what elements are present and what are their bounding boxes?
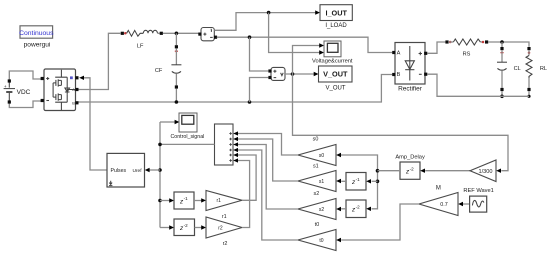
svg-text:r1: r1 <box>216 198 221 204</box>
svg-text:1/300: 1/300 <box>479 169 493 175</box>
MOSFET bridge block <box>41 69 79 111</box>
gain M <box>419 186 458 216</box>
svg-text:REF Wave1: REF Wave1 <box>463 188 493 194</box>
wire REF Wave1 to M <box>463 203 470 205</box>
svg-text:Pulses: Pulses <box>111 168 127 174</box>
wire to delay z-2 left <box>160 227 170 229</box>
arrow into t0 <box>336 238 341 242</box>
svg-text:-1: -1 <box>356 177 361 182</box>
node r-delay tap <box>158 199 162 203</box>
DC source VDC <box>4 71 42 108</box>
arrow into g port <box>79 76 84 80</box>
svg-text:B: B <box>397 72 401 78</box>
wire LF to current measurement <box>163 32 199 34</box>
wire z-2 right to s2 <box>341 208 346 210</box>
inductor LF <box>121 30 163 49</box>
node at CF tap <box>175 32 179 36</box>
svg-text:B: B <box>72 101 75 105</box>
arrow sum input 4 <box>233 148 238 152</box>
wire z-1 right to s1 <box>341 180 346 182</box>
svg-text:t0: t0 <box>315 222 320 228</box>
wire v output <box>285 73 315 75</box>
wire bridge A to LF <box>79 33 121 89</box>
gain s0 <box>298 137 336 166</box>
node v branch <box>291 72 295 76</box>
svg-text:s2: s2 <box>314 191 320 197</box>
node amp delay tap <box>376 169 380 173</box>
arrow into gain 1/300 <box>496 169 501 173</box>
gain s2 <box>298 191 336 220</box>
wire feedback column to s0 <box>341 155 378 209</box>
svg-text:0.7: 0.7 <box>440 202 448 208</box>
arrow into scope in2 <box>319 50 324 54</box>
wire z-1 to r1 <box>194 200 202 202</box>
node bus V- tap <box>248 100 252 104</box>
arrow into s0 <box>336 153 341 157</box>
wire t0 to sum in4 <box>238 150 298 240</box>
svg-text:Rectifier: Rectifier <box>398 86 423 93</box>
svg-text:V_OUT: V_OUT <box>325 85 345 91</box>
wire 1/300 to Amp_Delay <box>425 170 470 172</box>
svg-text:-2: -2 <box>356 205 361 210</box>
arrow sum input 6 <box>233 158 238 162</box>
wire rectifier - to load return <box>427 74 529 96</box>
arrow into I_OUT <box>315 10 320 14</box>
resistor RL <box>526 47 547 96</box>
arrow sum input 5 <box>233 153 238 157</box>
svg-text:+: + <box>4 84 7 89</box>
gain t0 <box>298 222 336 250</box>
scope Voltage&current <box>312 41 353 65</box>
voltage measurement block <box>268 67 285 80</box>
node z-1 right tap <box>376 180 380 184</box>
wire i to scope input 2 <box>269 13 320 53</box>
svg-text:Continuous: Continuous <box>19 30 54 37</box>
current measurement block <box>198 28 217 41</box>
wire s0 to sum in1 <box>238 134 298 156</box>
svg-text:-2: -2 <box>184 223 189 228</box>
svg-text:s1: s1 <box>313 164 319 170</box>
svg-text:Voltage&current: Voltage&current <box>312 59 353 65</box>
resistor RS <box>445 39 488 58</box>
svg-text:s1: s1 <box>319 179 325 185</box>
arrow into M <box>458 202 463 206</box>
gain s1 <box>298 164 336 192</box>
sum block U1 <box>215 124 234 165</box>
svg-text:r2: r2 <box>223 241 228 247</box>
wire Amp_Delay output <box>378 170 401 172</box>
svg-text:r2: r2 <box>218 225 223 231</box>
svg-text:Control_signal: Control_signal <box>170 134 204 140</box>
scope Control_signal <box>170 113 204 140</box>
subsystem Pulses <box>107 153 145 187</box>
svg-text:A: A <box>72 88 75 92</box>
svg-text:Amp_Delay: Amp_Delay <box>395 155 425 161</box>
wire v feedback down <box>293 74 509 171</box>
wire r1 to sum in5 <box>238 155 256 200</box>
svg-text:I_OUT: I_OUT <box>325 8 347 17</box>
node V+ tap <box>248 35 252 39</box>
wire to Pulses Uref <box>149 169 160 171</box>
delay block z-1 left <box>174 192 194 209</box>
display V_OUT <box>319 66 353 91</box>
wire RS to load node <box>488 42 529 47</box>
wire to V meas + <box>250 37 269 71</box>
gain r1 <box>206 191 242 221</box>
svg-text:RS: RS <box>463 52 471 58</box>
node top of CL <box>500 40 504 44</box>
source REF Wave1 <box>463 188 493 212</box>
svg-text:Uref: Uref <box>132 168 142 174</box>
wire to delay z-1 left <box>160 200 170 202</box>
display I_OUT <box>320 5 352 29</box>
svg-text:V_OUT: V_OUT <box>323 70 348 79</box>
arrow sum input 2 <box>233 137 238 141</box>
capacitor CF <box>155 45 182 102</box>
arrow into V_OUT <box>314 72 319 76</box>
node Uref tap <box>158 168 162 172</box>
node bottom of RL <box>527 95 530 98</box>
delay block z-2 right <box>346 200 366 218</box>
svg-text:A: A <box>397 51 401 57</box>
wire i output to I_OUT <box>214 13 315 31</box>
wire M output to t0 <box>341 204 419 240</box>
arrow into z-2 right <box>366 207 371 211</box>
capacitor CL <box>497 42 521 96</box>
wire into z-1 right <box>372 180 378 182</box>
delay block z-2 left <box>174 219 195 236</box>
svg-text:s0: s0 <box>313 137 319 143</box>
svg-text:LF: LF <box>137 43 144 49</box>
wire to Control_signal scope <box>160 121 175 123</box>
svg-text:CL: CL <box>514 66 521 72</box>
powergui block <box>19 26 54 49</box>
wire sum output to node column <box>160 143 215 145</box>
arrow into Amp_Delay <box>420 169 425 173</box>
wire minus output to rectifier A <box>217 37 392 52</box>
arrow sum input 3 <box>233 142 238 146</box>
wire gate from Pulses <box>84 78 108 170</box>
node sum output <box>158 143 162 147</box>
wire r2 to sum in6 <box>238 161 250 228</box>
node i branch <box>267 11 271 15</box>
wire control column vertical <box>159 122 161 228</box>
svg-text:M: M <box>436 186 441 192</box>
rectifier block <box>392 43 427 93</box>
svg-text:I_LOAD: I_LOAD <box>325 23 347 29</box>
arrow sum input 1 <box>233 131 238 135</box>
svg-text:VDC: VDC <box>17 89 31 96</box>
svg-text:-2: -2 <box>410 167 415 172</box>
wire bottom bus B <box>79 75 393 103</box>
svg-text:CF: CF <box>155 68 163 74</box>
node CF to bus <box>175 100 179 104</box>
wire down to CF <box>175 33 177 45</box>
delay block z-1 right <box>346 173 366 191</box>
node bottom of CL <box>500 95 504 99</box>
svg-text:s2: s2 <box>319 207 325 213</box>
wire v to scope input 1 <box>293 46 320 75</box>
svg-text:r1: r1 <box>222 214 227 220</box>
svg-text:t0: t0 <box>319 238 323 244</box>
arrow into scope in1 <box>319 43 324 47</box>
wire s2 to sum in3 <box>238 145 298 210</box>
gain r2 <box>206 217 242 247</box>
wire z-2 to r2 <box>195 227 202 229</box>
svg-text:RL: RL <box>540 66 547 72</box>
svg-text:powergui: powergui <box>24 42 51 49</box>
wire to V meas - <box>250 78 269 103</box>
svg-text:s0: s0 <box>319 153 325 159</box>
wire s1 to sum in2 <box>238 139 298 181</box>
delay block Amp_Delay <box>395 155 425 180</box>
gain 1/300 <box>470 160 496 182</box>
wire rectifier + to RS <box>427 42 445 53</box>
svg-text:-1: -1 <box>184 196 189 201</box>
